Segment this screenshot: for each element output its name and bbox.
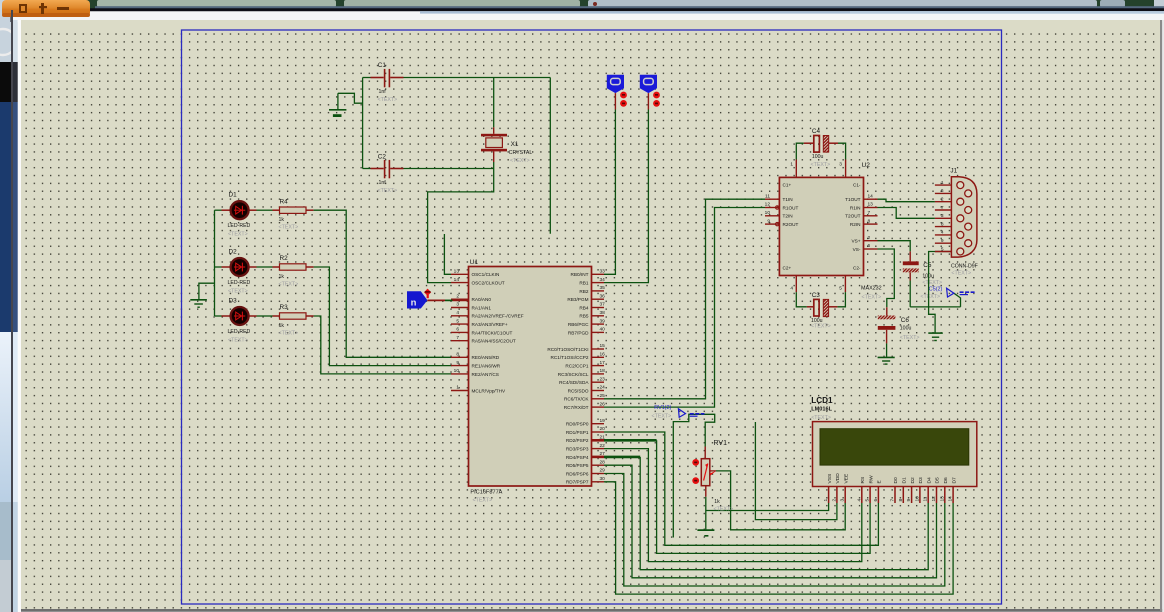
svg-text:1: 1 <box>456 385 459 391</box>
svg-text:T2IN: T2IN <box>783 214 793 219</box>
svg-text:RC3/SCK/SCL: RC3/SCK/SCL <box>558 372 589 377</box>
svg-text:RB4: RB4 <box>579 305 589 310</box>
pin 9 RE1/AN6/WR <box>451 365 469 367</box>
capacitor C3 <box>796 292 807 307</box>
svg-text:100u: 100u <box>812 154 824 160</box>
wire VEE to RV1 wiper <box>716 471 845 530</box>
svg-text:RA4/T0CKI/C1OUT: RA4/T0CKI/C1OUT <box>472 330 513 335</box>
svg-text:6: 6 <box>456 327 459 333</box>
svg-text:2: 2 <box>831 499 837 502</box>
svg-text:LED-RED: LED-RED <box>228 223 251 229</box>
svg-text:RB6/PGC: RB6/PGC <box>568 322 589 327</box>
wire button pin <box>614 93 616 109</box>
pin 18 RC3/SCK/SCL <box>592 373 605 375</box>
wire RD4 to D4 (bold) <box>604 456 640 459</box>
pin 4 J1 <box>935 234 952 236</box>
IC U1 PIC16F877A <box>469 267 592 487</box>
svg-text:11: 11 <box>923 496 929 501</box>
svg-text:4: 4 <box>856 499 862 502</box>
svg-text:<TEXT>: <TEXT> <box>900 335 920 341</box>
wire VS+ to C5 <box>878 241 911 252</box>
svg-text:2: 2 <box>868 235 871 241</box>
pin 5 J1 <box>935 251 952 253</box>
svg-text:RC5/SDO: RC5/SDO <box>568 388 589 393</box>
svg-text:4: 4 <box>456 310 459 316</box>
wire C6 to ground <box>886 343 888 357</box>
pin 14 OSC2/CLKOUT <box>451 282 469 284</box>
pin 2 J1 <box>935 201 952 203</box>
svg-text:<TEXT>: <TEXT> <box>862 295 882 301</box>
svg-text:U2: U2 <box>862 162 871 169</box>
svg-text:<TEXT>: <TEXT> <box>714 506 734 512</box>
pin 30 RD7/PSP7 <box>592 481 605 483</box>
svg-text:2: 2 <box>456 293 459 299</box>
wire left vertical C1-C2 <box>362 78 364 169</box>
svg-text:D2: D2 <box>229 249 238 256</box>
svg-text:1: 1 <box>790 162 793 168</box>
wire ground tap top-left <box>338 93 363 103</box>
svg-text:RC1/T1OSI/CCP2: RC1/T1OSI/CCP2 <box>550 355 588 360</box>
svg-text:U1: U1 <box>470 259 479 266</box>
svg-text:CONN-D9F: CONN-D9F <box>951 263 978 269</box>
ground (C6) <box>878 356 895 358</box>
svg-text:RA3/AN3/VREF+: RA3/AN3/VREF+ <box>472 322 508 327</box>
svg-text:9: 9 <box>767 218 770 224</box>
svg-text:1nf: 1nf <box>379 89 387 95</box>
wire C5 bottom to junction <box>909 281 911 307</box>
pin 2 VS+ <box>864 240 878 242</box>
ground (J1) <box>928 332 943 334</box>
svg-text:RD0/PSP0: RD0/PSP0 <box>566 422 589 427</box>
svg-text:LED-RED: LED-RED <box>228 280 251 286</box>
pin 7 RA5/AN4/SS/C2OUT <box>451 340 469 342</box>
svg-text:13: 13 <box>939 496 945 502</box>
svg-text:5: 5 <box>839 286 842 292</box>
pin 10 T2IN <box>765 215 779 217</box>
svg-text:RB7/PGD: RB7/PGD <box>568 330 589 335</box>
LED D1 <box>215 209 222 211</box>
svg-text:LED-RED: LED-RED <box>228 329 251 335</box>
pin 24 RC5/SDO <box>592 390 605 392</box>
svg-text:RC4/SDI/SDA: RC4/SDI/SDA <box>559 380 589 385</box>
svg-text:VDD: VDD <box>835 473 841 484</box>
svg-text:R3: R3 <box>280 304 289 311</box>
capacitor C5 <box>903 261 919 265</box>
svg-text:RE1/AN6/WR: RE1/AN6/WR <box>472 364 501 369</box>
svg-text:<TEXT>: <TEXT> <box>279 225 299 231</box>
svg-text:10: 10 <box>765 210 771 216</box>
svg-text:MAX232: MAX232 <box>861 286 882 292</box>
wire T1OUT to J1 pin2 <box>878 199 935 202</box>
pin 14 T1OUT <box>864 198 878 200</box>
svg-text:RA5/AN4/SS/C2OUT: RA5/AN4/SS/C2OUT <box>472 339 516 344</box>
wire crystal top to C1 row <box>493 78 495 128</box>
wire RD7 to D7 <box>604 482 953 594</box>
wire C2 row <box>404 168 494 170</box>
pin 1 MCLR/Vpp/THV <box>451 390 469 392</box>
pin 23 RC4/SDI/SDA <box>592 381 605 383</box>
svg-text:24: 24 <box>600 385 606 391</box>
svg-text:D4: D4 <box>926 477 932 484</box>
svg-text:<TEXT>: <TEXT> <box>228 289 248 295</box>
svg-text:2: 2 <box>941 197 944 203</box>
svg-text:<TEXT>: <TEXT> <box>228 232 248 238</box>
pin 7 J1 <box>935 209 952 211</box>
svg-text:<TEXT>: <TEXT> <box>652 414 672 420</box>
svg-text:<TEXT>: <TEXT> <box>811 324 831 330</box>
pin 16 RC1/T1OSI/CCP2 <box>592 356 605 358</box>
svg-text:RD1/PSP1: RD1/PSP1 <box>566 430 589 435</box>
wire R1IN to J1 pin3 <box>878 208 935 219</box>
pin 3 C1- <box>845 160 847 178</box>
svg-text:36: 36 <box>600 293 606 299</box>
wire RC6 to T1IN <box>604 199 765 399</box>
svg-text:<TEXT>: <TEXT> <box>811 415 831 421</box>
capacitor C6 <box>878 316 896 320</box>
svg-text:29: 29 <box>600 468 606 474</box>
ground (crystal) <box>329 109 346 111</box>
pin 13 R1IN <box>864 207 878 209</box>
svg-text:LCD1: LCD1 <box>811 396 833 405</box>
wire junction row <box>910 306 960 308</box>
svg-text:7: 7 <box>868 210 871 216</box>
pin 22 RD3/PSP3 <box>592 448 605 450</box>
pin 15 RC0/T1OSO/T1CKI <box>592 348 605 350</box>
wire VDD net dangling <box>755 422 837 520</box>
svg-text:25: 25 <box>600 393 606 399</box>
svg-text:17: 17 <box>600 360 606 366</box>
svg-text:5: 5 <box>941 246 944 252</box>
svg-text:3: 3 <box>839 162 842 168</box>
resistor R2 <box>257 266 273 268</box>
svg-text:C1-: C1- <box>853 183 861 188</box>
svg-text:n: n <box>411 298 417 309</box>
svg-text:16: 16 <box>600 352 606 358</box>
svg-text:1nf: 1nf <box>379 180 387 186</box>
svg-text:7: 7 <box>941 205 944 211</box>
pin 26 RC7/RX/DT <box>592 406 605 408</box>
pin 5 C2- <box>844 276 846 293</box>
svg-text:RC0/T1OSO/T1CKI: RC0/T1OSO/T1CKI <box>547 347 588 352</box>
svg-text:RA0/AN0: RA0/AN0 <box>472 297 492 302</box>
svg-text:<TEXT>: <TEXT> <box>473 498 493 504</box>
svg-text:8: 8 <box>456 352 459 358</box>
svg-text:D5: D5 <box>935 477 941 484</box>
svg-text:C2: C2 <box>378 153 387 160</box>
svg-text:D3: D3 <box>918 477 924 484</box>
svg-text:PIC16F877A: PIC16F877A <box>470 490 502 496</box>
svg-text:RS: RS <box>860 476 866 484</box>
svg-text:23: 23 <box>600 376 606 382</box>
svg-text:R1OUT: R1OUT <box>783 205 799 210</box>
svg-text:D2: D2 <box>910 477 916 484</box>
svg-text:C1: C1 <box>378 62 387 69</box>
svg-text:RA1/AN1: RA1/AN1 <box>472 305 492 310</box>
svg-text:RD4/PSP4: RD4/PSP4 <box>566 455 589 460</box>
svg-text:C3: C3 <box>812 292 821 299</box>
resistor R3 <box>257 315 273 317</box>
pin 38 RB5 <box>592 315 605 317</box>
svg-text:R2OUT: R2OUT <box>783 222 799 227</box>
svg-text:34: 34 <box>600 277 606 283</box>
svg-text:22: 22 <box>600 443 606 449</box>
svg-text:VS-: VS- <box>853 247 861 252</box>
pin 8 RE0/AN5/RD <box>451 356 469 358</box>
svg-text:D6: D6 <box>943 477 949 484</box>
svg-text:RB0/INT: RB0/INT <box>571 272 589 277</box>
svg-text:1k: 1k <box>279 323 285 329</box>
svg-text:RC6/TX/CK: RC6/TX/CK <box>564 397 589 402</box>
pin 21 RD2/PSP2 <box>592 439 605 442</box>
svg-text:1: 1 <box>941 180 944 186</box>
ground (LEDs) <box>190 299 207 301</box>
pin 3 RA1/AN1 <box>451 307 469 309</box>
crystal X1 <box>481 134 507 137</box>
pin 29 RD6/PSP6 <box>592 473 605 475</box>
wire RD2 to RW (bold) <box>604 439 657 442</box>
svg-text:RC7/RX/DT: RC7/RX/DT <box>564 405 589 410</box>
pin 1 C1+ <box>795 160 797 178</box>
pin 36 RB3/PGM <box>592 298 605 300</box>
svg-text:1k: 1k <box>714 499 720 505</box>
svg-text:19: 19 <box>600 418 606 424</box>
svg-text:<TEXT>: <TEXT> <box>378 97 398 103</box>
svg-text:11: 11 <box>765 193 770 199</box>
svg-text:R2IN: R2IN <box>850 222 861 227</box>
pin 28 RD5/PSP5 <box>592 464 605 466</box>
svg-text:33: 33 <box>600 269 606 275</box>
svg-text:<TEXT>: <TEXT> <box>510 158 530 164</box>
svg-text:38: 38 <box>600 310 606 316</box>
svg-text:9: 9 <box>941 238 944 244</box>
svg-text:15: 15 <box>600 343 606 349</box>
pin 8 R2IN <box>864 223 878 225</box>
svg-text:T1IN: T1IN <box>783 197 793 202</box>
IC U2 MAX232 <box>779 177 863 275</box>
pin 2 RA0/AN0 <box>451 298 469 300</box>
svg-text:4: 4 <box>790 286 793 292</box>
pin 4 C2+ <box>795 276 797 293</box>
capacitor C2 <box>363 168 371 170</box>
svg-text:D1: D1 <box>229 192 238 199</box>
svg-text:14: 14 <box>868 193 874 199</box>
pin 4 RA2/AN2/VREF-/CVREF <box>451 315 469 317</box>
LED D2 <box>215 266 222 268</box>
svg-text:D0: D0 <box>893 477 899 484</box>
svg-text:X1: X1 <box>511 141 519 148</box>
svg-text:RD7/PSP7: RD7/PSP7 <box>566 480 589 485</box>
wire J1 pin5 to ground <box>929 252 952 333</box>
svg-text:14: 14 <box>948 496 954 502</box>
svg-text:C4: C4 <box>812 128 821 135</box>
svg-text:RD6/PSP6: RD6/PSP6 <box>566 471 589 476</box>
svg-text:VS+: VS+ <box>852 239 861 244</box>
svg-text:7: 7 <box>890 499 896 502</box>
pin 39 RB6/PGC <box>592 323 605 325</box>
connector J1 <box>951 177 977 257</box>
svg-text:RV1: RV1 <box>714 440 728 447</box>
svg-text:VEE: VEE <box>843 473 849 484</box>
svg-text:<TEXT>: <TEXT> <box>951 271 971 277</box>
svg-text:6: 6 <box>868 243 871 249</box>
svg-text:6: 6 <box>873 499 879 502</box>
svg-text:J1: J1 <box>950 168 957 175</box>
svg-text:C2+: C2+ <box>783 266 792 271</box>
pin 9 R2OUT <box>765 223 779 225</box>
svg-text:<TEXT>: <TEXT> <box>378 188 398 194</box>
svg-text:D3: D3 <box>229 298 238 305</box>
svg-text:5: 5 <box>456 318 459 324</box>
wire OSC2 route <box>428 169 494 283</box>
svg-text:5: 5 <box>865 499 871 502</box>
svg-text:30: 30 <box>600 476 606 482</box>
svg-text:1: 1 <box>823 499 829 502</box>
LED D3 <box>215 315 222 317</box>
svg-text:C2-: C2- <box>853 266 861 271</box>
wire VSS net <box>706 503 829 511</box>
svg-text:3: 3 <box>840 499 846 502</box>
wire ground tap LEDs <box>199 283 215 299</box>
svg-text:C6: C6 <box>901 317 910 324</box>
svg-text:3: 3 <box>456 302 459 308</box>
wire crystal bottom to C2 row <box>493 162 495 169</box>
svg-text:RB2: RB2 <box>579 289 589 294</box>
wire RV1 top net dangling <box>673 414 714 537</box>
wire right vertical dangling from top row <box>549 78 551 234</box>
svg-text:8: 8 <box>868 218 871 224</box>
pin 35 RB2 <box>592 290 605 292</box>
svg-text:10: 10 <box>454 368 460 374</box>
svg-text:OSC2/CLKOUT: OSC2/CLKOUT <box>472 281 505 286</box>
svg-text:RB5: RB5 <box>579 314 589 319</box>
pin 10 RE2/AN7/CS <box>451 373 469 375</box>
wire LED net to U1 <box>314 267 452 366</box>
svg-text:8: 8 <box>941 221 944 227</box>
svg-text:T2OUT: T2OUT <box>845 214 861 219</box>
svg-text:28: 28 <box>600 459 606 465</box>
pin 11 T1IN <box>765 198 779 200</box>
pin 25 RC6/TX/CK <box>592 398 605 400</box>
svg-text:RE0/AN5/RD: RE0/AN5/RD <box>472 355 500 360</box>
svg-text:100u: 100u <box>900 326 912 332</box>
svg-text:MCLR/Vpp/THV: MCLR/Vpp/THV <box>472 388 506 393</box>
pin 8 J1 <box>935 226 952 228</box>
logic toggle button <box>640 75 657 93</box>
ground (RV1) <box>697 529 714 531</box>
wire button pin <box>647 93 649 109</box>
svg-text:R2: R2 <box>280 255 289 262</box>
wire RV1 bottom to ground <box>705 486 707 497</box>
svg-text:CRYSTAL: CRYSTAL <box>509 150 533 156</box>
pin 6 J1 <box>935 192 952 194</box>
svg-text:RD5/PSP5: RD5/PSP5 <box>566 463 589 468</box>
wire RD1 to E <box>604 432 878 545</box>
svg-text:R4: R4 <box>280 198 289 205</box>
svg-text:<TEXT>: <TEXT> <box>279 282 299 288</box>
pin 40 RB7/PGD <box>592 331 605 333</box>
svg-text:RW: RW <box>868 475 874 483</box>
svg-text:C5: C5 <box>923 262 932 269</box>
svg-text:C1+: C1+ <box>783 183 792 188</box>
svg-text:<TEXT>: <TEXT> <box>920 294 940 300</box>
svg-text:4: 4 <box>941 230 944 236</box>
svg-text:13: 13 <box>454 269 460 275</box>
resistor R4 <box>257 209 273 211</box>
svg-text:14: 14 <box>454 277 460 283</box>
svg-text:C5(2): C5(2) <box>929 286 943 292</box>
svg-text:12: 12 <box>765 202 771 208</box>
svg-text:<TEXT>: <TEXT> <box>279 331 299 337</box>
svg-text:7: 7 <box>456 335 459 341</box>
sheet border <box>182 30 1002 604</box>
wire RC7 to R1OUT <box>604 208 765 408</box>
svg-text:18: 18 <box>600 368 606 374</box>
marker red diamond <box>424 289 431 296</box>
wire RD3 to RS <box>604 449 862 562</box>
svg-text:D7: D7 <box>951 477 957 484</box>
svg-text:T1OUT: T1OUT <box>845 197 861 202</box>
svg-text:13: 13 <box>868 202 874 208</box>
wire RD5 to D5 <box>604 465 937 578</box>
svg-text:RV1(2): RV1(2) <box>654 405 671 411</box>
pin 6 RA4/T0CKI/C1OUT <box>451 331 469 333</box>
net flag n <box>407 291 427 308</box>
wire LED net to U1 <box>314 316 452 374</box>
wire VS- to C6 <box>878 249 895 307</box>
wire LED common vertical <box>214 210 216 316</box>
svg-text:R1IN: R1IN <box>850 205 861 210</box>
capacitor C1 <box>371 77 384 79</box>
svg-text:10: 10 <box>914 496 920 502</box>
pin 6 VS- <box>864 248 878 250</box>
pin 9 J1 <box>935 242 952 244</box>
svg-text:RA2/AN2/VREF-/CVREF: RA2/AN2/VREF-/CVREF <box>472 314 524 319</box>
svg-text:OSC1/CLKIN: OSC1/CLKIN <box>472 272 500 277</box>
pin 20 RD1/PSP1 <box>592 431 605 433</box>
wire C1 row top <box>363 77 371 79</box>
svg-text:RC2/CCP1: RC2/CCP1 <box>565 364 589 369</box>
svg-text:37: 37 <box>600 302 606 308</box>
wire n to RA0 <box>427 299 445 301</box>
wire OSC1 vertical dangling <box>444 234 451 274</box>
pin 5 RA3/AN3/VREF+ <box>451 323 469 325</box>
svg-text:9: 9 <box>906 499 912 502</box>
svg-text:LM016L: LM016L <box>811 406 832 412</box>
capacitor C4 <box>796 143 804 159</box>
svg-text:39: 39 <box>600 318 606 324</box>
svg-text:26: 26 <box>600 401 606 407</box>
svg-text:<TEXT>: <TEXT> <box>811 162 831 168</box>
svg-text:1k: 1k <box>279 217 285 223</box>
svg-text:20: 20 <box>600 426 606 432</box>
pin 34 RB1 <box>592 282 605 284</box>
pin 13 OSC1/CLKIN <box>451 273 469 275</box>
svg-text:RD3/PSP3: RD3/PSP3 <box>566 447 589 452</box>
svg-text:6: 6 <box>941 188 944 194</box>
svg-text:<TEXT>: <TEXT> <box>228 338 248 344</box>
pin 37 RB4 <box>592 307 605 309</box>
pin 19 RD0/PSP0 <box>592 423 605 425</box>
logic toggle button <box>607 75 624 93</box>
wire RD6 to D6 <box>604 474 945 587</box>
pin 12 R1OUT <box>765 207 779 209</box>
svg-text:3: 3 <box>941 213 944 219</box>
svg-text:9: 9 <box>456 360 459 366</box>
pin 27 RD4/PSP4 <box>592 456 605 459</box>
svg-text:RE2/AN7/CS: RE2/AN7/CS <box>472 372 499 377</box>
svg-text:1k: 1k <box>279 274 285 280</box>
pin 1 J1 <box>935 184 952 186</box>
